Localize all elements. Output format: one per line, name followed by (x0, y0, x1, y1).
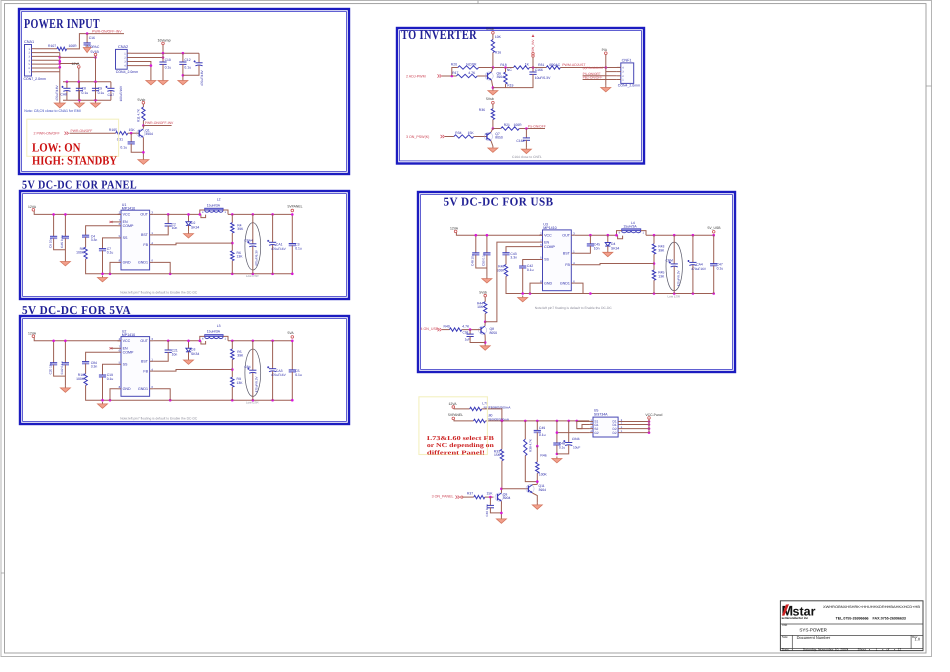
svg-text:BST: BST (141, 233, 149, 237)
svg-text:15K: 15K (487, 492, 494, 496)
capacitor C31 0.1u (130, 133, 132, 142)
wire U5 outputs (618, 421, 649, 423)
capacitor CA5 0.1u (64, 214, 66, 236)
svg-text:39K: 39K (237, 227, 244, 231)
capacitor CA9 470uF/16V (198, 53, 200, 63)
capacitor CB4 470uF/6.3V lowESR (245, 349, 261, 396)
ground rail USB (522, 296, 524, 298)
capacitor C84 3.3n (86, 352, 118, 361)
resistor R19 NC vertical (504, 72, 507, 84)
svg-text:10K: 10K (477, 305, 484, 309)
resistor R4 39K (231, 214, 233, 222)
ground C4B C846 (556, 457, 558, 459)
capacitor C20 10u (53, 341, 55, 363)
svg-text:MP1410: MP1410 (543, 226, 556, 230)
node 12VA U2 (32, 335, 35, 338)
svg-text:0.1u: 0.1u (527, 268, 534, 272)
ground C164 (525, 147, 527, 149)
svg-text:C164 close to CNF1: C164 close to CNF1 (512, 155, 542, 159)
svg-text:10uF: 10uF (573, 446, 580, 450)
svg-text:CNA2: CNA2 (118, 45, 128, 49)
transistor Q1 3904 (137, 129, 145, 137)
svg-text:D2: D2 (613, 431, 617, 435)
op-amp U U1 MP1410 regulator (121, 210, 150, 270)
svg-text:D3: D3 (191, 347, 195, 351)
svg-text:5V DC-DC FOR USB: 5V DC-DC FOR USB (444, 195, 554, 209)
capacitor C5 0.1u (291, 341, 293, 370)
capacitor C166 10uF/6.3V (532, 68, 534, 73)
capacitor C2 10n bootstrap (167, 214, 169, 223)
svg-text:NC/0R: NC/0R (466, 62, 477, 66)
wire CNA1 pin bus (36, 52, 60, 54)
svg-text:5Vsb: 5Vsb (486, 27, 494, 31)
svg-text:FB: FB (143, 243, 148, 247)
resistor R45 13K (652, 270, 655, 280)
node output 5VPANEL (291, 209, 294, 212)
svg-text:VCC: VCC (123, 339, 131, 343)
capacitor C40 0.1u (489, 497, 491, 505)
ground Q8 (484, 344, 486, 346)
svg-text:GND: GND (123, 261, 131, 265)
highlight yellow box 2 (419, 397, 488, 455)
svg-text:12VA: 12VA (28, 331, 37, 335)
capacitor CA1 470uF/16V (272, 214, 274, 242)
section box 5V DC-DC FOR USB (418, 192, 735, 372)
wire SW node USB (575, 234, 617, 236)
resistor R48 100K (505, 255, 507, 265)
diode D3 SK34 (188, 341, 190, 348)
svg-text:TEL.0755-26996666 FAX:0755-: TEL.0755-26996666 FAX:0755-26996633 (836, 616, 906, 620)
op-amp U3 MP1410 regulator (543, 230, 572, 291)
ground input caps USB (486, 277, 488, 279)
svg-text:C9: C9 (98, 87, 102, 91)
svg-text:CA5 0.1u: CA5 0.1u (60, 235, 64, 248)
svg-text:VCC: VCC (123, 213, 131, 217)
svg-text:0.1u: 0.1u (184, 66, 191, 70)
capacitor CBM 470uF/6.3V lowESR (666, 242, 682, 291)
connector CNF1 (621, 63, 634, 84)
svg-text:R16: R16 (495, 51, 501, 55)
capacitor C12 0.1u (182, 53, 184, 62)
wire GND1 pin U1 (153, 262, 170, 273)
wire R107 to top net (67, 34, 124, 49)
svg-text:SK34: SK34 (191, 352, 199, 356)
svg-text:R34: R34 (455, 131, 461, 135)
svg-text:1: 1 (876, 647, 878, 651)
svg-text:470uF16V: 470uF16V (691, 267, 707, 271)
svg-text:NC: NC (507, 68, 512, 72)
net 16Vamp (162, 42, 165, 45)
node output 5VA (291, 336, 294, 339)
svg-text:CNA1: CNA1 (24, 40, 34, 44)
svg-text:Note:left pin7 floating is def: Note:left pin7 floating is default to En… (535, 306, 613, 310)
wire GND pin U1 (110, 262, 118, 273)
svg-text:OUT: OUT (140, 213, 148, 217)
capacitor C19 0.1u (103, 364, 118, 375)
wire FB U3 (575, 264, 654, 265)
svg-text:CA2 0.1u: CA2 0.1u (60, 361, 64, 374)
svg-text:39K: 39K (658, 248, 665, 252)
svg-text:MP1410: MP1410 (122, 333, 135, 337)
svg-text:C20 10u: C20 10u (48, 362, 52, 374)
ground D4 (607, 250, 609, 252)
svg-text:Sheet: Sheet (858, 647, 867, 651)
inductor L2 15uH/3A (205, 208, 223, 210)
svg-text:0.1u: 0.1u (559, 446, 565, 450)
wire output rail USB (646, 234, 714, 236)
resistor R9 13K (231, 377, 234, 387)
svg-text:39K: 39K (237, 354, 244, 358)
svg-text:different Panel!: different Panel! (427, 450, 485, 457)
svg-text:C166: C166 (535, 68, 543, 72)
svg-text:Size: Size (782, 635, 788, 639)
wire GND1 pin U2 (153, 389, 170, 400)
svg-text:XWHROBNXHSHRK+HHUHHXDRHHBAHKXH: XWHROBNXHSHRK+HHUHHXDRHHBAHKXHCD+HB (823, 605, 921, 609)
svg-text:1.0: 1.0 (915, 637, 921, 642)
highlight yellow box (27, 119, 119, 156)
diode D4 SK34 (607, 235, 609, 242)
svg-text:R21: R21 (504, 123, 510, 127)
svg-text:470uF16V: 470uF16V (271, 373, 287, 377)
svg-text:3904: 3904 (503, 496, 511, 500)
wire R38 R46 to Q11 collector (525, 456, 537, 485)
resistor R33 15K (501, 421, 503, 449)
svg-text:GND1: GND1 (560, 281, 570, 285)
svg-text:0.1u: 0.1u (295, 246, 302, 250)
ground input caps U1 (64, 260, 66, 262)
svg-text:470uF/16V: 470uF/16V (200, 70, 204, 86)
ground Q1 (142, 158, 144, 160)
svg-text:470uF/6.3V: 470uF/6.3V (255, 375, 259, 392)
ground input caps U2 (64, 386, 66, 388)
node output 5V_USB (712, 231, 715, 234)
svg-text:8050: 8050 (490, 331, 498, 335)
resistor R16 100K (85, 364, 87, 374)
svg-text:SW_INV: SW_INV (531, 39, 535, 52)
svg-text:L2: L2 (217, 198, 221, 202)
wire 12VA rail U2 (34, 337, 121, 340)
capacitor C48 10u (475, 235, 477, 253)
svg-text:13K: 13K (658, 275, 665, 279)
wire 12VA rail USB (456, 233, 542, 236)
capacitor C7 0.1u (103, 238, 118, 249)
svg-text:R20: R20 (451, 62, 457, 66)
svg-text:16Vamp: 16Vamp (158, 39, 171, 43)
capacitor C6 10u (53, 214, 55, 236)
svg-text:TO INVERTER: TO INVERTER (401, 27, 477, 42)
svg-text:4 ON_USB: 4 ON_USB (421, 327, 439, 331)
resistor R46 100K (536, 446, 538, 462)
node 12VA USB (454, 230, 457, 233)
svg-text:Low ESR: Low ESR (246, 400, 259, 404)
ground CNF1 (605, 86, 607, 88)
capacitor C164 (525, 129, 527, 138)
ground Q9 (500, 517, 502, 519)
net PWR-ON/OFF (70, 132, 116, 134)
capacitor C4B 0.1u (556, 421, 558, 443)
wire EN to Q8 (485, 242, 539, 322)
svg-text:3 ON_PANEL: 3 ON_PANEL (432, 494, 454, 498)
ground Q6 (492, 89, 494, 91)
svg-text:10n: 10n (172, 226, 178, 230)
svg-text:HIGH: STANDBY: HIGH: STANDBY (32, 154, 117, 168)
svg-text:100K: 100K (539, 473, 548, 477)
wire output rail U2 (228, 340, 292, 342)
wire FB U1 (153, 243, 232, 245)
svg-text:3.3n: 3.3n (510, 256, 517, 260)
connector CNA1 (25, 45, 32, 77)
svg-text:PWR-ON/OFF: PWR-ON/OFF (71, 129, 93, 133)
ground D2 (188, 232, 190, 234)
resistor R17 4.7K (442, 75, 456, 77)
svg-text:3.3n: 3.3n (91, 238, 98, 242)
ground CNA1 bus (59, 101, 61, 103)
node VCC-Panel (648, 417, 651, 420)
svg-text:C10: C10 (165, 58, 171, 62)
svg-text:100K: 100K (496, 268, 505, 272)
svg-text:Saturday, November 10, 2007: Saturday, November 10, 2007 (803, 647, 848, 651)
svg-text:470uF16V: 470uF16V (271, 247, 287, 251)
wire SW node U1 (153, 213, 200, 215)
svg-text:P/A: P/A (602, 48, 608, 52)
ground caps left (78, 101, 80, 103)
wire U5 pin4 (557, 432, 590, 434)
resistor R36 10K (492, 104, 494, 109)
svg-text:1K: 1K (525, 63, 530, 67)
capacitor C42 0.1u (523, 260, 539, 267)
svg-text:D2: D2 (191, 221, 195, 225)
svg-text:SS: SS (123, 236, 128, 240)
ground CNA2 pins (150, 79, 152, 81)
svg-text:SYS-POWER: SYS-POWER (799, 627, 827, 632)
svg-text:C846: C846 (572, 437, 580, 441)
svg-text:VCC: VCC (544, 233, 552, 237)
capacitor C9 0.1u (95, 82, 97, 89)
svg-text:of: of (887, 647, 890, 651)
svg-text:PWR-ON/OFF-INV: PWR-ON/OFF-INV (145, 121, 174, 125)
section box 5V DC-DC FOR PANEL (20, 191, 349, 299)
svg-text:C164: C164 (516, 139, 524, 143)
svg-text:15uH/3A: 15uH/3A (207, 203, 221, 207)
inductor L79 NC/FB0805/500mA (454, 407, 470, 410)
svg-text:or NC depending on: or NC depending on (427, 442, 495, 449)
svg-text:0.1u: 0.1u (98, 91, 105, 95)
capacitor C49 0.1u (536, 421, 538, 431)
op-amp U U2 MP1410 regulator (121, 337, 150, 397)
resistor R43 39K (653, 235, 655, 244)
svg-text:0.1u: 0.1u (165, 66, 172, 70)
ground C12 (182, 79, 184, 81)
transistor Q7 8050 (484, 132, 492, 140)
resistor R34 15K (445, 136, 454, 138)
capacitor CA3 470uF/16V (272, 341, 274, 369)
svg-text:L3: L3 (217, 324, 221, 328)
wire GND1 pin U3 (575, 283, 583, 293)
svg-text:R105: R105 (109, 128, 117, 132)
svg-text:15uH/3A: 15uH/3A (623, 224, 637, 228)
resistor R31 0R0AC (546, 66, 560, 69)
svg-text:CON7_2.0mm: CON7_2.0mm (24, 77, 46, 81)
ground arrow C16 (83, 48, 91, 53)
svg-text:PB2-ON/OFF: PB2-ON/OFF (583, 76, 603, 80)
resistor R105 15K (116, 132, 128, 135)
svg-text:POWER INPUT: POWER INPUT (24, 16, 100, 31)
ground rail U2 (102, 402, 104, 404)
wire CNA2 pin2 (131, 57, 163, 59)
wire U5 pin2 pin3 (577, 425, 590, 429)
svg-text:Low ESR: Low ESR (668, 294, 681, 298)
wire 16V rail CNA2 (131, 52, 199, 54)
capacitor C846 10uF (568, 421, 570, 443)
svg-text:Low ESR: Low ESR (246, 274, 259, 278)
svg-text:(4)PB-ADJUST: (4)PB-ADJUST (583, 66, 604, 70)
ground rail U1 (102, 276, 104, 278)
svg-text:BST: BST (141, 360, 149, 364)
svg-text:Title: Title (782, 623, 788, 627)
svg-text:C16: C16 (89, 36, 95, 40)
svg-text:GND: GND (123, 387, 131, 391)
svg-text:8050: 8050 (495, 135, 503, 139)
svg-text:0.1u: 0.1u (539, 433, 546, 437)
svg-text:5Vsb: 5Vsb (486, 97, 494, 101)
wire 12VA rail U1 (34, 211, 121, 214)
net P/A power (605, 52, 608, 55)
svg-text:470uF/6.3V: 470uF/6.3V (255, 249, 259, 266)
svg-text:SS: SS (123, 363, 128, 367)
svg-text:100uF/16V: 100uF/16V (119, 85, 123, 101)
svg-text:VCC-Panel: VCC-Panel (645, 413, 662, 417)
svg-text:R46: R46 (540, 454, 546, 458)
svg-text:12VA: 12VA (450, 227, 459, 231)
ground D3 (188, 358, 190, 360)
node 5Vsb USB (484, 294, 487, 297)
svg-text:R40: R40 (444, 325, 450, 329)
svg-text:10K: 10K (495, 35, 502, 39)
svg-text:CON4_2.0mm: CON4_2.0mm (116, 70, 138, 74)
inductor L3 15uH/3A (205, 335, 223, 337)
svg-text:5Vsb: 5Vsb (479, 291, 487, 295)
capacitor CA7 100uF/16V (110, 82, 112, 89)
wire collector node row (492, 53, 494, 68)
svg-text:Note: C8,C9 close to CNA1 for: Note: C8,C9 close to CNA1 for EMI (24, 109, 80, 113)
svg-text:Document Number: Document Number (797, 635, 831, 640)
wire CNF1 pins (605, 55, 607, 86)
svg-text:12VA: 12VA (449, 402, 458, 406)
resistor R16 10K (492, 34, 494, 39)
svg-text:OUT: OUT (562, 233, 570, 237)
svg-text:100R: 100R (69, 44, 78, 48)
svg-text:100K: 100K (76, 377, 85, 381)
svg-text:SI9734A: SI9734A (594, 413, 608, 417)
svg-text:3904: 3904 (539, 488, 547, 492)
node 5Vsb pullup (142, 101, 145, 104)
svg-text:C58: C58 (462, 331, 468, 335)
svg-text:R107: R107 (48, 44, 56, 48)
svg-text:SK34: SK34 (191, 226, 199, 230)
svg-text:15K: 15K (494, 453, 501, 457)
svg-text:4.7K: 4.7K (462, 325, 470, 329)
svg-text:0.1u: 0.1u (295, 373, 302, 377)
capacitor C47 0.1u (713, 235, 715, 263)
transistor Q8 8050 (479, 326, 487, 334)
svg-text:15uH/3A: 15uH/3A (207, 330, 221, 334)
wire ground rail USB (523, 293, 714, 295)
svg-text:C31: C31 (117, 138, 123, 142)
svg-text:Note:left pin7 floating is def: Note:left pin7 floating is default to En… (120, 290, 198, 294)
capacitor CA2 0.1u (64, 341, 66, 363)
svg-text:SK34: SK34 (611, 247, 619, 251)
resistor R107 100R (36, 48, 57, 50)
svg-text:5Vsb: 5Vsb (138, 98, 146, 102)
node 12VA bead (452, 406, 455, 409)
svg-text:G2: G2 (594, 431, 598, 435)
resistor R18 1K (514, 66, 530, 69)
no-connect EN pin U1 (110, 221, 113, 223)
resistor R37 15K (463, 496, 474, 498)
svg-text:13K: 13K (237, 381, 244, 385)
svg-text:GND1: GND1 (138, 387, 148, 391)
inductor L80 FB0805/500mA (454, 420, 474, 421)
svg-text:CNF1: CNF1 (622, 59, 632, 63)
svg-text:4.7K: 4.7K (468, 71, 476, 75)
svg-text:5V_USB: 5V_USB (708, 226, 722, 230)
capacitor CA8 470uF/16V (66, 82, 68, 89)
wire Q9 collector to Q11 base (501, 488, 528, 490)
svg-text:FB: FB (565, 263, 570, 267)
node 12VA (78, 66, 81, 69)
svg-text:Note:left pin7 floating is def: Note:left pin7 floating is default to En… (120, 417, 198, 421)
svg-text:GND: GND (544, 281, 552, 285)
wire GND pin U2 (110, 389, 118, 400)
capacitor C21 10n bootstrap (167, 341, 169, 350)
svg-text:R11 4.7K: R11 4.7K (137, 108, 141, 122)
transistor Q11 3904 (526, 485, 534, 493)
wire to 5V1B column (60, 56, 96, 58)
title block frame (780, 601, 923, 651)
svg-text:C8: C8 (82, 87, 86, 91)
svg-text:1uF: 1uF (465, 338, 471, 342)
svg-text:3 ON_PSW(K): 3 ON_PSW(K) (406, 135, 429, 139)
resistor R8 100K (85, 237, 87, 247)
node 5Vsb inverter upper (492, 32, 495, 35)
svg-text:100K: 100K (76, 251, 85, 255)
svg-text:SS: SS (544, 258, 549, 262)
resistor R6 13K (231, 251, 234, 261)
svg-text:0R0AC: 0R0AC (549, 63, 560, 67)
svg-text:470uF/6.3V: 470uF/6.3V (676, 269, 680, 286)
node 5VPANEL bead (452, 417, 455, 420)
svg-text:FB: FB (143, 369, 148, 373)
resistor R11 4.7K (142, 104, 144, 107)
svg-text:PWR-ON/OFF-INV: PWR-ON/OFF-INV (92, 30, 122, 34)
wire ground rail U2 (103, 399, 293, 401)
capacitor C4 3.3n (86, 226, 118, 235)
resistor R21 100R (501, 127, 520, 130)
svg-text:5VA: 5VA (288, 331, 295, 335)
no-connect EN pin U2 (110, 347, 113, 349)
svg-text:L73&L60 select FB: L73&L60 select FB (427, 435, 494, 442)
svg-text:2 PWR-ON/OFF: 2 PWR-ON/OFF (34, 132, 61, 136)
svg-text:BST: BST (563, 251, 571, 255)
wire GND pin U3 (530, 283, 539, 293)
svg-text:5VPANEL: 5VPANEL (288, 205, 303, 209)
wire cap rail top (63, 81, 111, 83)
wire U5 pin1 (577, 421, 590, 423)
ground caps right (95, 101, 97, 103)
svg-text:COMP: COMP (544, 245, 555, 249)
svg-text:C6 10u: C6 10u (48, 238, 52, 248)
svg-text:EN: EN (544, 240, 549, 244)
